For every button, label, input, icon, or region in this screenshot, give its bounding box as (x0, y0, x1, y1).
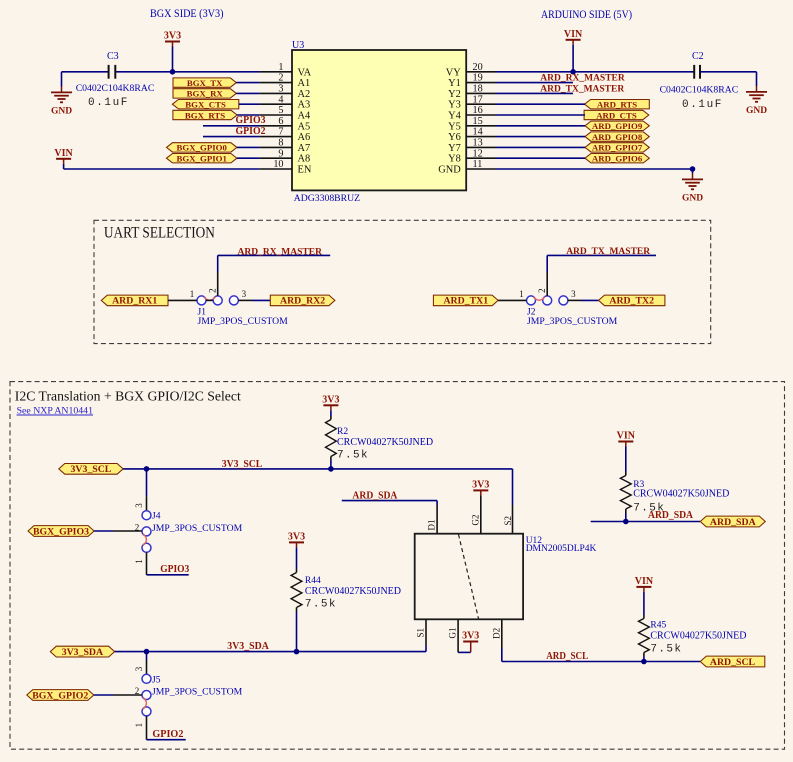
svg-text:ARD_CTS: ARD_CTS (596, 110, 637, 120)
svg-text:19: 19 (473, 73, 483, 84)
svg-text:JMP_3POS_CUSTOM: JMP_3POS_CUSTOM (527, 316, 618, 327)
svg-text:Y8: Y8 (448, 154, 461, 165)
svg-text:C0402C104K8RAC: C0402C104K8RAC (76, 83, 155, 94)
svg-text:2: 2 (278, 73, 283, 84)
svg-text:Y6: Y6 (448, 132, 461, 143)
svg-text:G2: G2 (470, 515, 480, 526)
svg-text:R2: R2 (337, 427, 348, 437)
svg-text:BGX_GPIO1: BGX_GPIO1 (177, 154, 227, 164)
svg-text:3V3: 3V3 (472, 480, 489, 491)
svg-text:BGX_GPIO0: BGX_GPIO0 (177, 143, 228, 153)
svg-text:7.5k: 7.5k (305, 599, 337, 611)
svg-text:I2C Translation + BGX GPIO/I2C: I2C Translation + BGX GPIO/I2C Select (15, 389, 241, 404)
svg-text:3V3_SDA: 3V3_SDA (227, 641, 269, 652)
svg-text:ARD_RX_MASTER: ARD_RX_MASTER (238, 248, 323, 258)
svg-text:3: 3 (134, 666, 144, 671)
svg-text:17: 17 (473, 94, 483, 105)
svg-text:D1: D1 (427, 520, 437, 531)
svg-text:See NXP AN10441: See NXP AN10441 (17, 406, 93, 417)
svg-text:6: 6 (278, 116, 283, 127)
svg-text:GPIO2: GPIO2 (236, 126, 266, 137)
svg-text:ARD_SCL: ARD_SCL (546, 651, 588, 662)
svg-text:ARD_SDA: ARD_SDA (648, 510, 694, 521)
svg-text:CRCW04027K50JNED: CRCW04027K50JNED (650, 630, 746, 641)
svg-text:3: 3 (571, 289, 576, 299)
svg-text:18: 18 (473, 84, 483, 95)
svg-text:G1: G1 (448, 628, 458, 639)
svg-text:Y5: Y5 (448, 121, 461, 132)
svg-text:BGX_CTS: BGX_CTS (185, 100, 226, 110)
svg-text:0.1uF: 0.1uF (682, 99, 723, 111)
svg-text:15: 15 (473, 116, 483, 127)
svg-text:GND: GND (746, 106, 767, 116)
svg-text:3V3: 3V3 (462, 631, 479, 642)
svg-text:Y7: Y7 (448, 143, 461, 154)
svg-text:2: 2 (537, 288, 547, 293)
svg-text:1: 1 (519, 289, 524, 299)
svg-text:3V3_SCL: 3V3_SCL (70, 464, 111, 475)
svg-text:20: 20 (473, 62, 483, 73)
svg-text:ARD_RX2: ARD_RX2 (280, 296, 325, 307)
svg-text:Y2: Y2 (448, 89, 461, 100)
svg-text:3V3: 3V3 (322, 395, 339, 406)
svg-text:11: 11 (473, 159, 483, 170)
svg-text:A3: A3 (298, 100, 311, 111)
svg-text:1: 1 (278, 62, 283, 73)
svg-text:GPIO3: GPIO3 (236, 115, 266, 126)
svg-text:J5: J5 (152, 675, 161, 685)
svg-text:JMP_3POS_CUSTOM: JMP_3POS_CUSTOM (152, 687, 243, 698)
svg-text:S1: S1 (416, 628, 426, 638)
svg-text:BGX_RTS: BGX_RTS (185, 110, 225, 120)
svg-text:ARD_GPIO7: ARD_GPIO7 (592, 143, 643, 153)
svg-text:C2: C2 (692, 51, 704, 62)
svg-text:BGX_GPIO2: BGX_GPIO2 (32, 690, 88, 701)
svg-text:13: 13 (473, 138, 483, 149)
svg-text:A5: A5 (298, 121, 311, 132)
svg-text:VY: VY (446, 67, 462, 78)
svg-text:3V3_SDA: 3V3_SDA (62, 647, 103, 658)
svg-text:BGX_GPIO3: BGX_GPIO3 (33, 526, 89, 537)
svg-text:A6: A6 (298, 132, 311, 143)
svg-text:1: 1 (190, 289, 195, 299)
svg-text:4: 4 (278, 94, 283, 105)
svg-text:GPIO3: GPIO3 (160, 564, 189, 575)
svg-text:VIN: VIN (617, 431, 636, 442)
svg-text:ARD_TX1: ARD_TX1 (443, 296, 488, 307)
svg-text:0.1uF: 0.1uF (88, 97, 129, 109)
svg-text:GND: GND (682, 194, 703, 204)
svg-text:14: 14 (473, 127, 483, 138)
svg-text:CRCW04027K50JNED: CRCW04027K50JNED (337, 437, 433, 448)
svg-text:ARD_RX_MASTER: ARD_RX_MASTER (540, 74, 625, 84)
svg-text:R44: R44 (305, 576, 321, 586)
svg-text:8: 8 (278, 138, 283, 149)
svg-text:A1: A1 (298, 78, 311, 89)
svg-text:16: 16 (473, 105, 483, 116)
svg-text:VIN: VIN (564, 29, 583, 40)
svg-text:Y4: Y4 (448, 111, 462, 122)
svg-text:Y1: Y1 (448, 78, 461, 89)
svg-text:7: 7 (278, 127, 283, 138)
svg-text:ARD_RX1: ARD_RX1 (112, 296, 157, 307)
svg-text:10: 10 (273, 159, 283, 170)
svg-text:J4: J4 (152, 512, 161, 522)
svg-text:A4: A4 (298, 111, 312, 122)
svg-text:VA: VA (298, 67, 312, 78)
svg-text:ARD_GPIO8: ARD_GPIO8 (592, 132, 643, 142)
svg-text:CRCW04027K50JNED: CRCW04027K50JNED (633, 488, 729, 499)
svg-text:ARD_TX_MASTER: ARD_TX_MASTER (540, 84, 624, 94)
svg-text:BGX SIDE (3V3): BGX SIDE (3V3) (150, 8, 224, 20)
svg-text:ARD_SDA: ARD_SDA (352, 490, 398, 501)
svg-text:C0402C104K8RAC: C0402C104K8RAC (660, 85, 739, 96)
svg-text:9: 9 (278, 148, 283, 159)
svg-text:1: 1 (134, 559, 144, 564)
svg-text:D2: D2 (491, 628, 501, 639)
svg-text:EN: EN (298, 165, 312, 176)
svg-text:7.5k: 7.5k (337, 450, 369, 462)
svg-text:C3: C3 (107, 51, 119, 62)
svg-text:ADG3308BRUZ: ADG3308BRUZ (294, 193, 360, 204)
svg-text:A7: A7 (298, 143, 311, 154)
svg-text:BGX_RX: BGX_RX (187, 89, 224, 99)
svg-text:Y3: Y3 (448, 100, 461, 111)
svg-text:S2: S2 (503, 516, 513, 526)
svg-text:JMP_3POS_CUSTOM: JMP_3POS_CUSTOM (152, 523, 243, 534)
svg-text:VIN: VIN (635, 576, 654, 587)
svg-text:3V3: 3V3 (288, 532, 305, 543)
svg-text:ARD_SCL: ARD_SCL (710, 657, 756, 668)
svg-text:3V3: 3V3 (164, 31, 181, 42)
svg-text:GND: GND (438, 165, 461, 176)
svg-text:3: 3 (134, 503, 144, 508)
svg-text:UART SELECTION: UART SELECTION (104, 225, 215, 242)
svg-text:JMP_3POS_CUSTOM: JMP_3POS_CUSTOM (198, 316, 289, 327)
svg-text:ARDUINO SIDE (5V): ARDUINO SIDE (5V) (541, 9, 632, 21)
svg-text:ARD_TX_MASTER: ARD_TX_MASTER (566, 247, 650, 257)
svg-text:A8: A8 (298, 154, 311, 165)
svg-text:3: 3 (242, 289, 247, 299)
svg-text:ARD_GPIO6: ARD_GPIO6 (592, 154, 643, 164)
svg-text:12: 12 (473, 148, 483, 159)
svg-text:5: 5 (278, 105, 283, 116)
svg-text:ARD_RTS: ARD_RTS (597, 100, 637, 110)
svg-text:ARD_GPIO9: ARD_GPIO9 (592, 121, 643, 131)
svg-text:7.5k: 7.5k (650, 644, 682, 656)
svg-text:ARD_SDA: ARD_SDA (710, 517, 756, 528)
svg-text:ARD_TX2: ARD_TX2 (609, 296, 654, 307)
svg-text:BGX_TX: BGX_TX (187, 78, 223, 88)
svg-text:1: 1 (134, 723, 144, 728)
svg-text:R45: R45 (650, 621, 666, 631)
svg-text:3V3_SCL: 3V3_SCL (222, 459, 263, 470)
svg-text:CRCW04027K50JNED: CRCW04027K50JNED (305, 586, 401, 597)
svg-text:GPIO2: GPIO2 (152, 729, 183, 740)
svg-text:GND: GND (51, 107, 72, 117)
svg-text:3: 3 (278, 84, 283, 95)
svg-text:2: 2 (208, 288, 218, 293)
svg-text:VIN: VIN (54, 148, 73, 159)
svg-text:DMN2005DLP4K: DMN2005DLP4K (526, 544, 597, 554)
svg-text:U3: U3 (292, 40, 304, 51)
svg-text:A2: A2 (298, 89, 311, 100)
